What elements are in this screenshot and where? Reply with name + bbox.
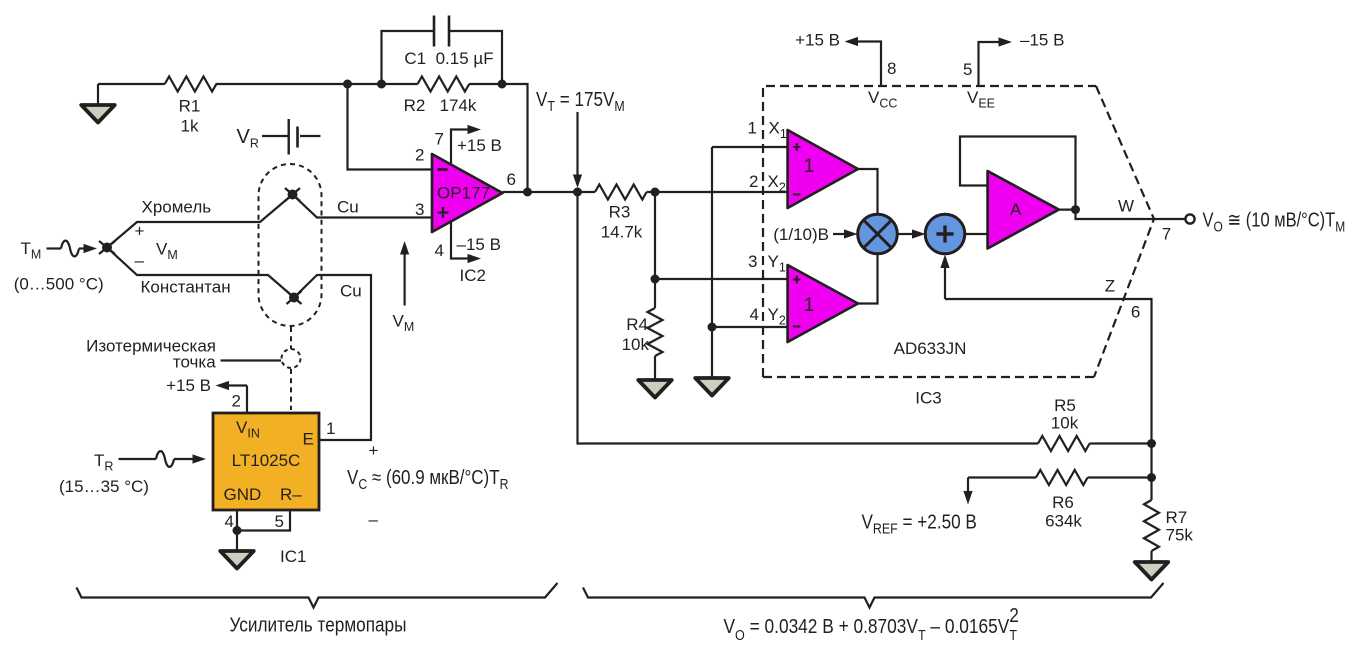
svg-text:VREF = +2.50 В: VREF = +2.50 В	[862, 510, 977, 536]
svg-text:+15 В: +15 В	[457, 136, 502, 155]
svg-text:(15…35 °C): (15…35 °C)	[59, 477, 149, 496]
svg-text:R7: R7	[1166, 508, 1188, 527]
svg-text:OP177: OP177	[437, 184, 490, 203]
svg-text:X1: X1	[769, 119, 787, 142]
svg-text:C1 0.15 µF: C1 0.15 µF	[404, 49, 493, 68]
svg-text:Y2: Y2	[768, 305, 786, 328]
svg-text:1: 1	[804, 295, 815, 316]
svg-text:Cu: Cu	[340, 282, 362, 301]
svg-text:1: 1	[804, 156, 815, 177]
svg-text:IC3: IC3	[915, 389, 941, 408]
svg-text:VEE: VEE	[967, 88, 995, 111]
svg-text:7: 7	[1162, 225, 1171, 244]
svg-text:2: 2	[749, 172, 758, 191]
svg-text:Хромель: Хромель	[142, 198, 212, 217]
svg-text:1k: 1k	[181, 117, 199, 136]
svg-text:E: E	[303, 430, 314, 449]
svg-text:3: 3	[415, 200, 424, 219]
svg-text:R5: R5	[1054, 396, 1076, 415]
svg-text:R2 174k: R2 174k	[404, 96, 477, 115]
svg-text:10k: 10k	[622, 335, 650, 354]
svg-text:Y1: Y1	[768, 252, 786, 275]
svg-text:–15 В: –15 В	[457, 235, 501, 254]
svg-text:1: 1	[326, 419, 335, 438]
svg-text:(1/10)В: (1/10)В	[773, 225, 829, 244]
svg-text:VR: VR	[237, 126, 259, 151]
svg-text:(0…500 °C): (0…500 °C)	[14, 275, 104, 294]
svg-text:W: W	[1118, 197, 1134, 216]
svg-text:R4: R4	[626, 315, 648, 334]
svg-text:AD633JN: AD633JN	[894, 339, 967, 358]
svg-text:+15 В: +15 В	[166, 376, 211, 395]
svg-text:5: 5	[963, 60, 972, 79]
svg-text:–: –	[135, 251, 145, 270]
svg-text:VO ≅ (10 мВ/°C)TM: VO ≅ (10 мВ/°C)TM	[1203, 208, 1346, 235]
svg-text:GND: GND	[224, 485, 262, 504]
svg-text:634k: 634k	[1045, 512, 1082, 531]
svg-text:TM: TM	[21, 239, 42, 262]
svg-text:8: 8	[887, 59, 896, 78]
svg-text:75k: 75k	[1166, 526, 1194, 545]
svg-text:Усилитель термопары: Усилитель термопары	[230, 613, 407, 636]
svg-text:R3: R3	[609, 203, 631, 222]
svg-text:6: 6	[1131, 303, 1140, 322]
svg-text:6: 6	[507, 170, 516, 189]
svg-text:A: A	[1010, 200, 1022, 219]
svg-text:VM: VM	[393, 312, 415, 335]
svg-text:+: +	[135, 222, 145, 241]
svg-text:+15 В: +15 В	[795, 31, 840, 50]
svg-text:VT = 175VM: VT = 175VM	[536, 88, 625, 114]
svg-text:2: 2	[232, 392, 241, 411]
svg-text:VCC: VCC	[868, 88, 897, 111]
svg-text:–15 В: –15 В	[1020, 31, 1064, 50]
svg-text:3: 3	[748, 252, 757, 271]
svg-text:+: +	[369, 441, 379, 460]
svg-text:LT1025C: LT1025C	[232, 451, 301, 470]
svg-text:1: 1	[748, 119, 757, 138]
svg-text:VM: VM	[156, 240, 178, 263]
svg-text:14.7k: 14.7k	[601, 223, 643, 242]
svg-text:R6: R6	[1052, 493, 1074, 512]
svg-text:2: 2	[415, 146, 424, 165]
svg-text:точка: точка	[173, 353, 216, 372]
svg-text:IC1: IC1	[280, 547, 306, 566]
svg-text:VC ≈ (60.9 мкВ/°C)TR: VC ≈ (60.9 мкВ/°C)TR	[347, 466, 509, 493]
svg-text:4: 4	[225, 512, 234, 531]
svg-text:R–: R–	[280, 485, 302, 504]
svg-text:4: 4	[750, 305, 759, 324]
svg-text:7: 7	[435, 130, 444, 149]
svg-text:VO = 0.0342 В + 0.8703VT – 0.0: VO = 0.0342 В + 0.8703VT – 0.0165VT2	[723, 604, 1018, 643]
svg-text:TR: TR	[94, 451, 113, 474]
svg-text:IC2: IC2	[460, 266, 486, 285]
svg-text:5: 5	[275, 512, 284, 531]
svg-text:Z: Z	[1105, 277, 1115, 296]
svg-text:Cu: Cu	[337, 198, 359, 217]
svg-text:10k: 10k	[1051, 414, 1079, 433]
svg-text:4: 4	[435, 241, 444, 260]
svg-text:–: –	[369, 510, 379, 529]
svg-text:R1: R1	[179, 97, 201, 116]
svg-text:Константан: Константан	[141, 278, 231, 297]
